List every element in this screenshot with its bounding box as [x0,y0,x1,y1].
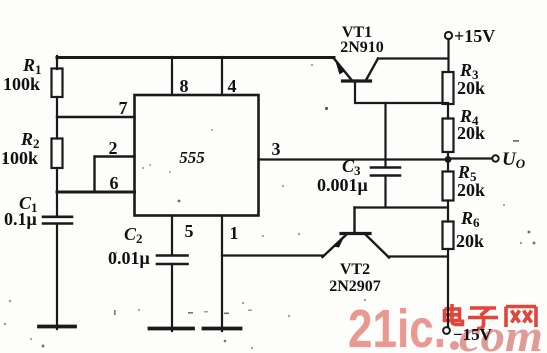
svg-text:7: 7 [119,98,128,118]
svg-text:21ic.: 21ic. [348,299,446,353]
wire R5 to R6 [447,201,449,222]
svg-text:6: 6 [110,173,119,193]
resistor R5 [443,172,454,201]
wire pin 6 line [57,191,135,194]
wire VT2 emitter to pin1 rail [222,254,324,256]
wire pin 5 lead [171,216,173,256]
ground [150,327,194,331]
capacitor C3 [371,168,400,176]
svg-text:8: 8 [180,76,189,96]
svg-text:0.01μ: 0.01μ [108,248,150,268]
wire C2 to ground [171,264,173,331]
wire VT2 collector to R6 bottom rail [388,255,448,257]
wire pin 8 lead [171,57,173,95]
resistor R6 [443,222,454,250]
wire VT1 base lead [355,81,448,103]
wire +15V to R3 [447,39,449,72]
wire R3 to R4 [447,104,449,119]
ground [204,327,241,331]
svg-text:3: 3 [272,139,281,159]
wire C3 top lead [384,103,386,167]
svg-text:100k: 100k [1,148,38,168]
resistor R3 [443,72,454,104]
resistor R2 [52,139,63,169]
node output junction [445,156,452,163]
svg-text:1: 1 [230,223,239,243]
transistor Q1 VT1 [334,59,378,82]
capacitor C1 [43,217,72,224]
svg-text:2: 2 [109,138,118,158]
svg-text:100k: 100k [3,74,40,94]
wire pin 3 output line [259,158,449,160]
svg-text:20k: 20k [456,231,484,251]
transistor Q2 VT2 [323,208,390,258]
svg-text:0.1μ: 0.1μ [4,209,37,229]
ground [39,325,75,329]
resistor R4 [443,119,454,153]
svg-text:+15V: +15V [454,26,495,46]
wire left rail R2 to C1 [56,168,58,216]
resistor R1 [52,69,63,98]
wire left rail R1 to R2 [56,97,58,139]
wire C1 to ground [56,224,58,329]
svg-text:2N910: 2N910 [340,39,384,56]
svg-text:−15V: −15V [453,325,493,344]
watermark com script [450,311,543,353]
wire pin 2 line [95,157,135,193]
wire C3 bottom node line [355,176,449,208]
svg-text:0.001μ: 0.001μ [317,175,368,195]
wire pin 4 lead [221,57,223,95]
wire R4 to R5 [447,152,449,172]
svg-text:VT2: VT2 [340,261,370,278]
wire R6 to -15V terminal [447,249,449,327]
svg-text:5: 5 [185,221,194,241]
wire top supply rail [57,56,334,59]
wire output Uo lead [451,157,492,159]
svg-text:20k: 20k [457,78,485,98]
capacitor C2 [157,256,188,265]
node -15V terminal [443,327,450,334]
wire pin 1 lead to ground [221,216,223,332]
svg-text:20k: 20k [457,123,485,143]
wire VT1 collector to +15V rail [378,57,448,59]
wire left rail top segment [56,56,58,69]
svg-text:2N2907: 2N2907 [329,278,381,295]
node +15V terminal [445,32,452,39]
wire pin 7 line [57,116,135,118]
watermark CJK dianziwang [445,304,537,329]
node Uo terminal [492,155,498,161]
svg-text:4: 4 [228,76,237,96]
svg-text:555: 555 [179,148,205,167]
svg-text:20k: 20k [457,180,485,200]
op-amp U1 555 timer box [135,95,259,216]
